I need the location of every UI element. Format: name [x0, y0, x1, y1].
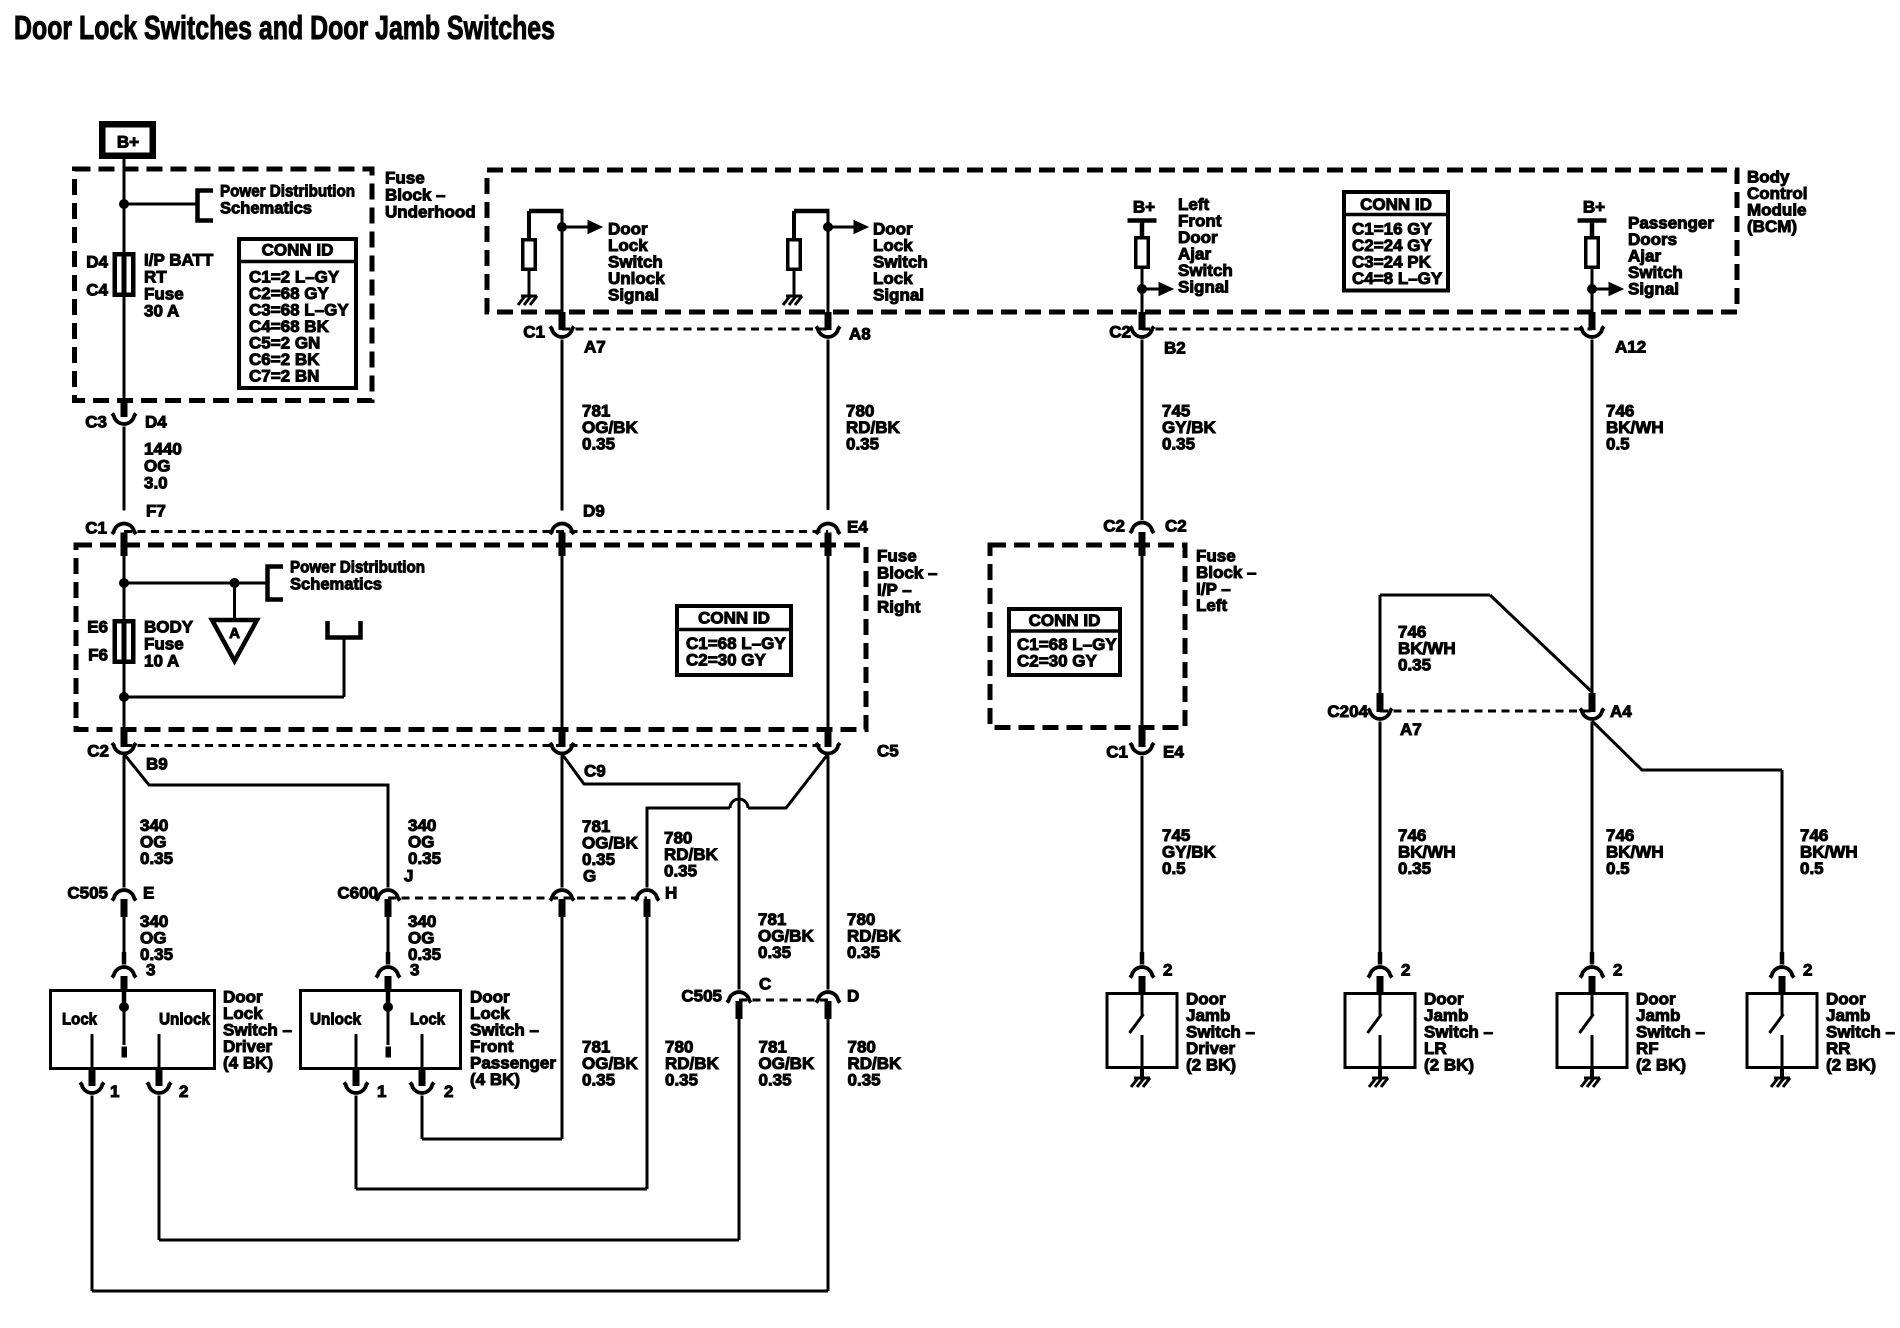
svg-text:(4 BK): (4 BK): [223, 1053, 273, 1072]
svg-text:A7: A7: [584, 337, 606, 356]
svg-text:Underhood: Underhood: [385, 202, 476, 221]
svg-text:Signal: Signal: [1178, 277, 1229, 296]
svg-text:C: C: [759, 974, 771, 993]
svg-text:A7: A7: [1400, 720, 1422, 739]
svg-text:C5: C5: [877, 741, 899, 760]
svg-text:0.35: 0.35: [846, 434, 879, 453]
svg-text:F7: F7: [146, 501, 166, 520]
svg-text:A8: A8: [849, 324, 871, 343]
svg-text:0.35: 0.35: [1162, 434, 1195, 453]
svg-text:0.35: 0.35: [1398, 655, 1431, 674]
svg-text:H: H: [665, 883, 677, 902]
svg-text:0.35: 0.35: [582, 1070, 615, 1089]
svg-text:0.35: 0.35: [847, 943, 880, 962]
svg-text:0.35: 0.35: [664, 861, 697, 880]
svg-text:10 A: 10 A: [144, 651, 179, 670]
svg-text:CONN ID: CONN ID: [1029, 611, 1101, 630]
svg-text:Unlock: Unlock: [159, 1009, 210, 1028]
svg-text:1: 1: [110, 1082, 119, 1101]
svg-text:E6: E6: [87, 617, 108, 636]
svg-text:C1: C1: [85, 518, 107, 537]
svg-text:(2 BK): (2 BK): [1186, 1055, 1236, 1074]
svg-text:C2=30 GY: C2=30 GY: [1017, 651, 1098, 670]
svg-text:CONN ID: CONN ID: [1360, 195, 1432, 214]
svg-text:0.35: 0.35: [140, 849, 173, 868]
svg-text:2: 2: [1803, 960, 1812, 979]
svg-text:0.35: 0.35: [758, 943, 791, 962]
svg-text:D4: D4: [86, 252, 108, 271]
svg-text:C204: C204: [1327, 702, 1368, 721]
svg-text:C3: C3: [85, 412, 107, 431]
svg-text:Right: Right: [877, 597, 921, 616]
svg-text:1: 1: [377, 1082, 386, 1101]
svg-text:(4 BK): (4 BK): [470, 1070, 520, 1089]
svg-text:Unlock: Unlock: [310, 1009, 361, 1028]
svg-text:C2: C2: [87, 741, 109, 760]
svg-text:2: 2: [1613, 960, 1622, 979]
svg-text:C2: C2: [1109, 322, 1131, 341]
svg-text:2: 2: [179, 1082, 188, 1101]
svg-text:B9: B9: [146, 754, 168, 773]
svg-text:3.0: 3.0: [144, 473, 168, 492]
svg-text:E4: E4: [847, 517, 868, 536]
svg-text:F6: F6: [88, 645, 108, 664]
svg-text:Lock: Lock: [410, 1009, 445, 1028]
svg-text:Door Lock Switches and Door Ja: Door Lock Switches and Door Jamb Switche…: [14, 9, 555, 46]
svg-text:0.35: 0.35: [140, 945, 173, 964]
svg-text:C505: C505: [67, 883, 108, 902]
svg-text:C2=30 GY: C2=30 GY: [686, 650, 767, 669]
svg-text:C9: C9: [584, 761, 606, 780]
svg-text:D9: D9: [583, 501, 605, 520]
svg-text:(2 BK): (2 BK): [1826, 1055, 1876, 1074]
svg-text:C505: C505: [681, 986, 722, 1005]
svg-text:B+: B+: [1583, 197, 1605, 216]
svg-text:0.5: 0.5: [1162, 859, 1186, 878]
svg-text:Signal: Signal: [608, 285, 659, 304]
svg-text:2: 2: [444, 1082, 453, 1101]
svg-text:0.35: 0.35: [665, 1070, 698, 1089]
svg-text:2: 2: [1401, 960, 1410, 979]
svg-text:E: E: [143, 883, 154, 902]
svg-text:A: A: [229, 625, 240, 642]
svg-text:0.5: 0.5: [1606, 434, 1630, 453]
svg-text:Signal: Signal: [873, 285, 924, 304]
svg-text:3: 3: [146, 960, 155, 979]
svg-text:2: 2: [1163, 960, 1172, 979]
svg-text:0.35: 0.35: [1398, 859, 1431, 878]
svg-text:CONN ID: CONN ID: [698, 608, 770, 627]
svg-text:(2 BK): (2 BK): [1636, 1055, 1686, 1074]
svg-text:E4: E4: [1163, 742, 1184, 761]
svg-text:(2 BK): (2 BK): [1424, 1055, 1474, 1074]
svg-text:Signal: Signal: [1628, 279, 1679, 298]
svg-text:3: 3: [410, 960, 419, 979]
svg-text:C4: C4: [86, 280, 108, 299]
svg-text:Schematics: Schematics: [290, 574, 382, 593]
svg-text:(BCM): (BCM): [1747, 217, 1797, 236]
svg-text:G: G: [583, 866, 596, 885]
svg-text:C1: C1: [1106, 742, 1128, 761]
svg-text:D: D: [847, 986, 859, 1005]
svg-text:0.35: 0.35: [759, 1070, 792, 1089]
svg-text:D4: D4: [145, 412, 167, 431]
svg-text:30 A: 30 A: [144, 301, 179, 320]
svg-text:C7=2 BN: C7=2 BN: [249, 366, 319, 385]
svg-text:0.5: 0.5: [1606, 859, 1630, 878]
svg-text:0.5: 0.5: [1800, 859, 1824, 878]
svg-text:Schematics: Schematics: [220, 198, 312, 217]
svg-text:B+: B+: [1133, 197, 1155, 216]
svg-text:C2: C2: [1103, 516, 1125, 535]
svg-text:Lock: Lock: [62, 1009, 97, 1028]
svg-text:C600: C600: [337, 883, 378, 902]
svg-text:CONN ID: CONN ID: [262, 240, 334, 259]
svg-text:Left: Left: [1196, 596, 1228, 615]
svg-text:C4=8 L–GY: C4=8 L–GY: [1352, 269, 1443, 288]
svg-text:C1: C1: [523, 322, 545, 341]
svg-text:0.35: 0.35: [848, 1070, 881, 1089]
svg-text:J: J: [404, 866, 413, 885]
svg-text:0.35: 0.35: [408, 849, 441, 868]
svg-text:A4: A4: [1610, 702, 1632, 721]
svg-text:B+: B+: [117, 132, 139, 151]
svg-text:B2: B2: [1164, 338, 1186, 357]
svg-text:0.35: 0.35: [582, 434, 615, 453]
svg-text:C2: C2: [1165, 516, 1187, 535]
svg-text:A12: A12: [1615, 337, 1646, 356]
